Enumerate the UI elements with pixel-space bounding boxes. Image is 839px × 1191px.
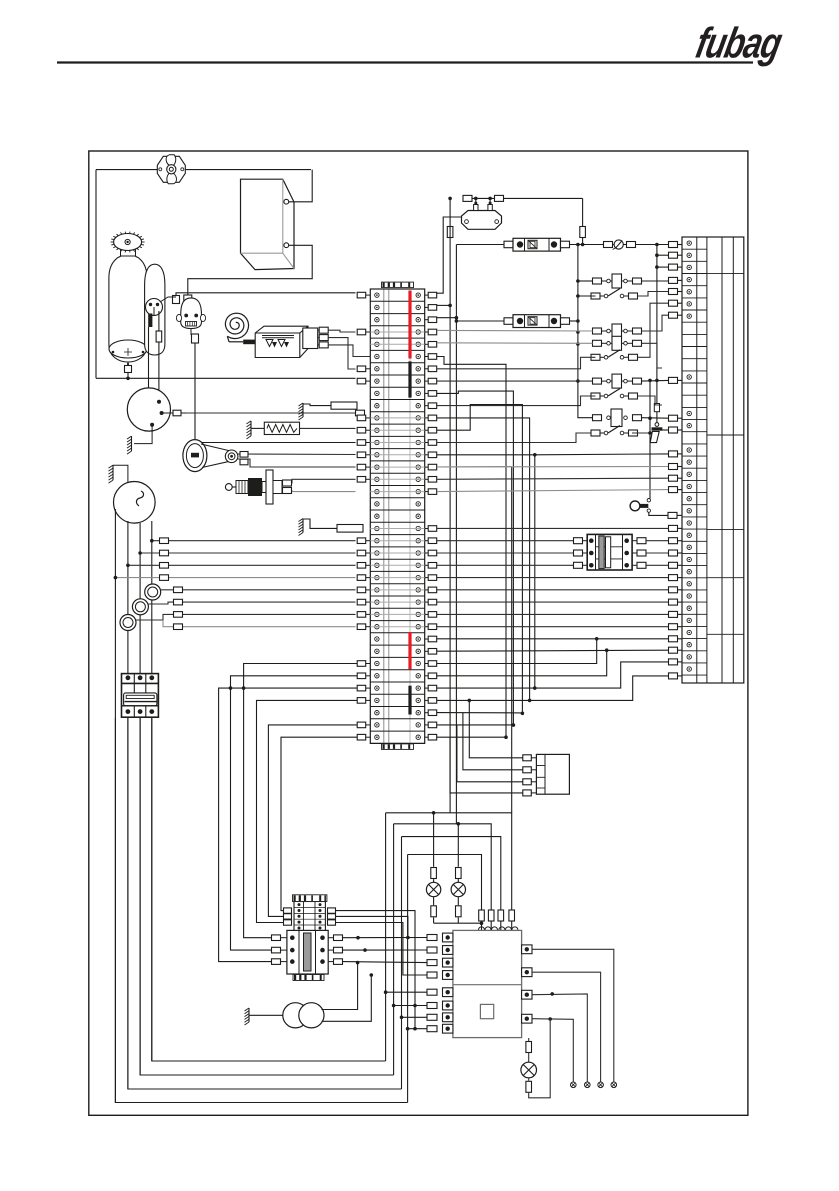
svg-text:fubag: fubag (692, 20, 786, 68)
